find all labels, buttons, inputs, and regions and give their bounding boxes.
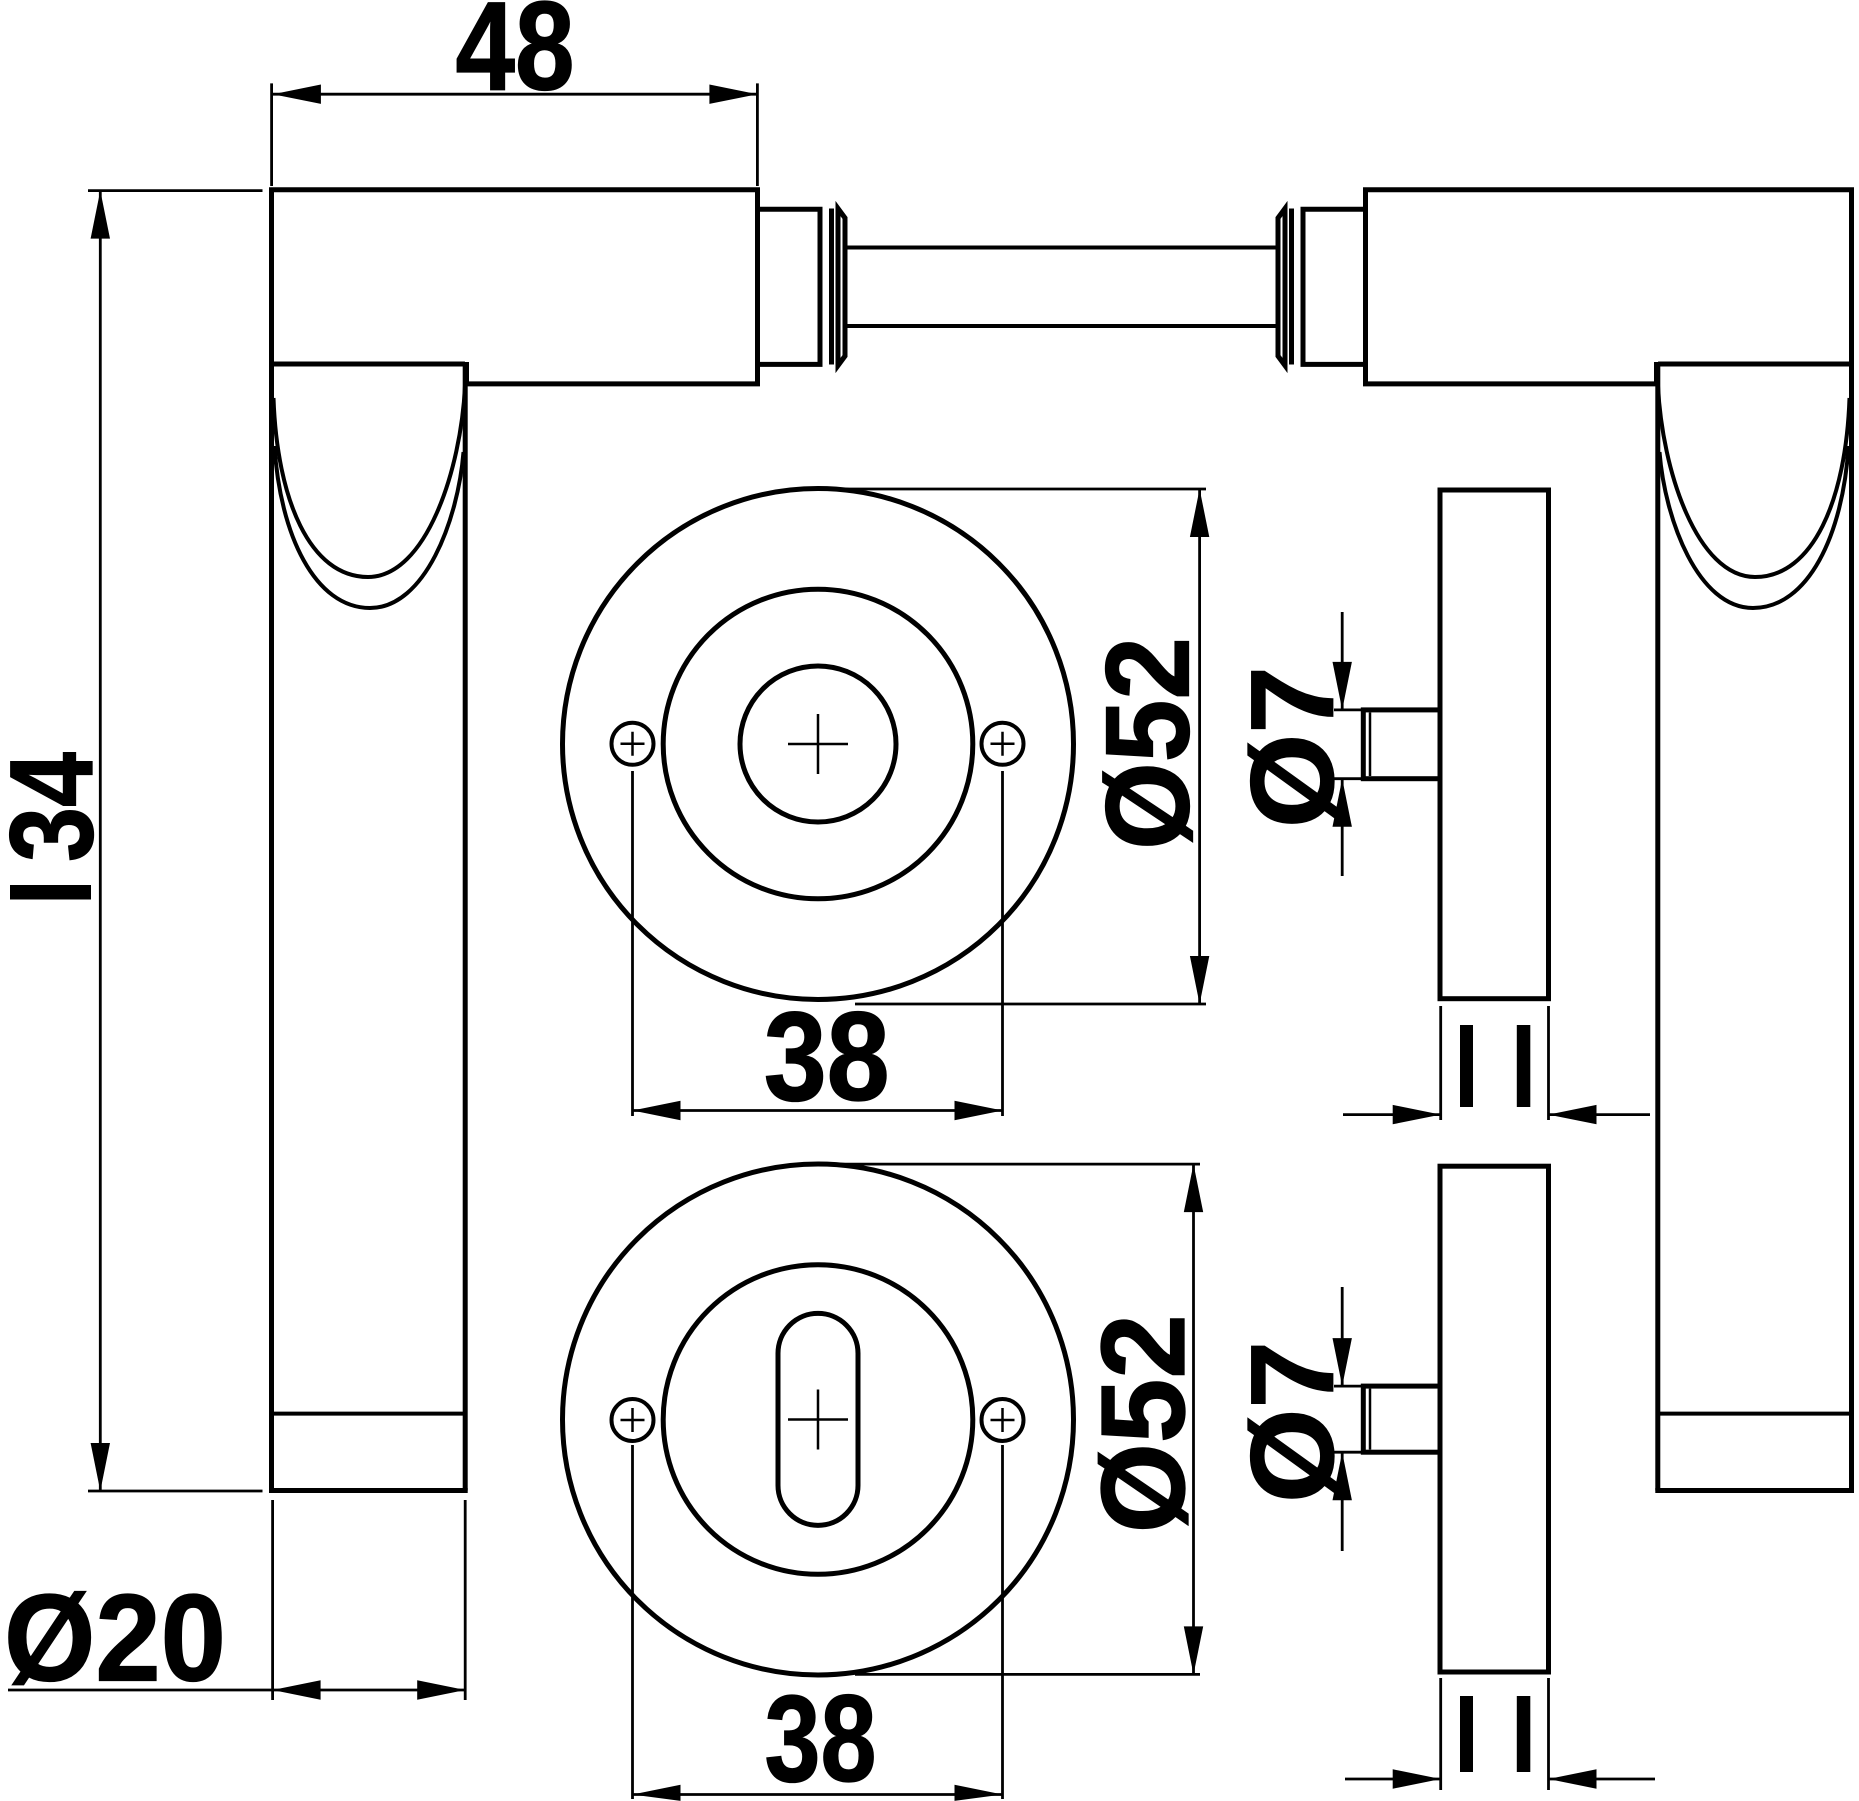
bottom O7 arrow lines: [1341, 1287, 1344, 1551]
dimension 48 line: [273, 93, 758, 96]
bottom rosette outer circle: [563, 1164, 1074, 1675]
svg-text:48: 48: [456, 0, 575, 117]
bottom O52 arrowheads: [1184, 1164, 1203, 1212]
bottom rosette right screw: [982, 1399, 1024, 1441]
top 11 dimension lines: [1343, 1113, 1650, 1116]
top 38 extension lines: [633, 771, 1003, 1116]
top rosette center cross: [788, 714, 848, 774]
top O7 arrow lines: [1341, 612, 1344, 876]
top O7 extension ticks: [1334, 710, 1362, 779]
dimension 134 line: [99, 191, 102, 1491]
left grip scoop curve outer: [275, 446, 464, 608]
bottom 38 dimension line: [633, 1793, 1003, 1796]
left handle grip cap line: [272, 1412, 466, 1416]
svg-text:38: 38: [765, 1671, 877, 1801]
dimension 48 extension lines: [272, 83, 758, 186]
left handle neck: [758, 209, 821, 364]
bottom rosette keyhole oval: [778, 1313, 858, 1525]
top rosette left screw: [612, 723, 654, 765]
dimension 134 arrowheads: [91, 191, 110, 239]
bottom 11 dimension lines: [1345, 1778, 1655, 1781]
left handle grip bottom: [269, 1488, 468, 1493]
svg-text:Ø20: Ø20: [4, 1571, 226, 1708]
top O52 extension lines: [826, 489, 1206, 1004]
svg-text:Ø7: Ø7: [1227, 1341, 1358, 1503]
right grip scoop curve outer: [1660, 446, 1849, 608]
top O7 arrowheads: [1333, 662, 1352, 710]
top 11 arrowheads: [1393, 1105, 1441, 1124]
top rosette right screw: [982, 723, 1024, 765]
bottom rosette side view plate: [1440, 1166, 1549, 1672]
bottom rosette side view spindle stub: [1363, 1386, 1440, 1452]
top rosette middle circle: [663, 589, 973, 899]
bottom rosette center cross: [788, 1390, 848, 1450]
right handle neck: [1303, 209, 1366, 364]
top rosette side view plate: [1440, 490, 1549, 999]
top rosette outer circle: [563, 489, 1074, 1000]
left collar bevel plate: [838, 209, 845, 366]
top 11 digits: [1460, 1025, 1473, 1107]
dimension 48 arrowheads: [273, 85, 321, 104]
bottom O52 extension lines: [820, 1164, 1200, 1674]
svg-text:38: 38: [764, 986, 890, 1127]
bottom 11 digits: [1460, 1696, 1473, 1772]
top 38 dimension line: [633, 1109, 1003, 1112]
dimension 134 extension lines: [88, 191, 263, 1491]
right handle grip bottom: [1655, 1488, 1854, 1493]
left handle grip right edge: [463, 364, 468, 1491]
top 38 arrowheads: [633, 1101, 681, 1120]
top O52 dimension line: [1198, 489, 1201, 1004]
right handle body outline: [1363, 187, 1854, 1490]
svg-text:Ø52: Ø52: [1077, 1314, 1210, 1533]
bottom O7 extension ticks: [1334, 1386, 1362, 1452]
bottom rosette middle circle: [663, 1265, 973, 1575]
dimension 134 text: digit 1 as bar: [10, 885, 91, 900]
spindle rod: [845, 248, 1278, 327]
left handle body outline: [269, 187, 760, 1490]
top rosette side view spindle stub: [1363, 710, 1440, 779]
bottom O7 arrowheads: [1333, 1338, 1352, 1386]
bottom 38 extension lines: [633, 1445, 1003, 1799]
bottom O52 dimension line: [1192, 1164, 1195, 1674]
svg-text:34: 34: [0, 752, 117, 862]
right collar bevel plate: [1278, 209, 1285, 366]
bottom stub chamfer line: [1369, 1389, 1372, 1450]
top rosette bore circle: [740, 666, 896, 822]
bottom 38 arrowheads: [633, 1785, 681, 1801]
right handle grip left edge: [1655, 364, 1660, 1491]
left collar ring line: [829, 209, 834, 365]
right handle grip cap line: [1658, 1412, 1852, 1416]
top 11 extension lines: [1441, 1006, 1549, 1120]
right collar ring line: [1289, 209, 1294, 365]
bottom rosette left screw: [612, 1399, 654, 1441]
bottom 11 arrowheads: [1393, 1769, 1441, 1788]
dimension O20 arrowheads: [273, 1680, 321, 1699]
dimension O20 line: [8, 1689, 465, 1692]
svg-text:Ø7: Ø7: [1227, 666, 1358, 828]
svg-text:Ø52: Ø52: [1082, 637, 1215, 850]
dimension O20 extension lines: [273, 1500, 466, 1700]
top stub chamfer line: [1369, 713, 1372, 777]
top O52 arrowheads: [1190, 489, 1209, 537]
left grip scoop curve inner: [274, 386, 466, 577]
bottom 11 extension lines: [1441, 1678, 1549, 1790]
right grip scoop curve inner: [1658, 386, 1850, 577]
